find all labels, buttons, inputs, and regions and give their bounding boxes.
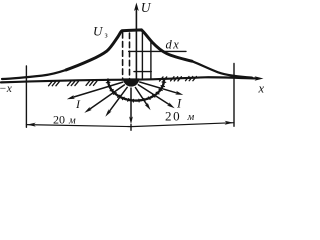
ground line (x-axis) [1,77,256,82]
ground hatch group 3 [86,81,97,85]
center tick [130,125,132,131]
hemispherical earth electrode [123,78,139,86]
ground hatch group 1 [49,82,60,86]
dashed drop line A (left electrode edge) [122,33,124,79]
left extension line [25,66,27,127]
dim arrowhead right [225,121,234,125]
svg-text:x: x [258,82,265,96]
equipotential arc (hatched band) [108,80,164,101]
svg-text:м: м [68,116,76,127]
svg-text:з: з [105,31,108,40]
current arrow B2 (right, mid) [138,85,174,109]
current arrow B3 (right, steep) [135,88,150,111]
dimension line [26,123,234,127]
potential curve U(x) main bell [66,30,192,70]
dim arrowhead left [27,123,36,127]
ground hatch group 2 [68,81,79,85]
U axis arrowhead [134,3,139,12]
svg-text:м: м [187,112,195,123]
svg-text:dx: dx [166,38,181,52]
dashed drop line B [129,33,131,79]
svg-text:I: I [75,97,81,111]
drop line D (dx strip right) [150,41,152,79]
ground hatch group 6 [186,77,197,81]
potential curve U(x) left tail [2,70,66,79]
right extension line [233,64,235,127]
current arrow B1 (right, shallow) [140,82,184,95]
current arrow A3 (left, steep) [105,87,127,116]
x-axis right arrowhead [255,76,264,80]
drop line C (dx strip left) [141,33,143,80]
arc radial hatch ticks [106,82,165,102]
svg-text:U: U [93,24,104,39]
svg-text:20: 20 [53,113,65,127]
current arrow A2 (left, mid) [84,85,124,113]
svg-text:U: U [141,0,152,15]
horizontal level line under dx [129,50,186,52]
ground hatch group 5 [171,77,182,81]
svg-text:20: 20 [165,109,181,124]
current arrow A1 (left, shallow) [67,82,123,99]
current arrow A4 (straight down) [129,88,133,124]
svg-text:−x: −x [0,83,13,95]
ground hatch group 4 [160,77,167,81]
U axis [135,6,137,79]
short crossbar [134,71,151,73]
potential curve U(x) right tail [192,61,252,77]
